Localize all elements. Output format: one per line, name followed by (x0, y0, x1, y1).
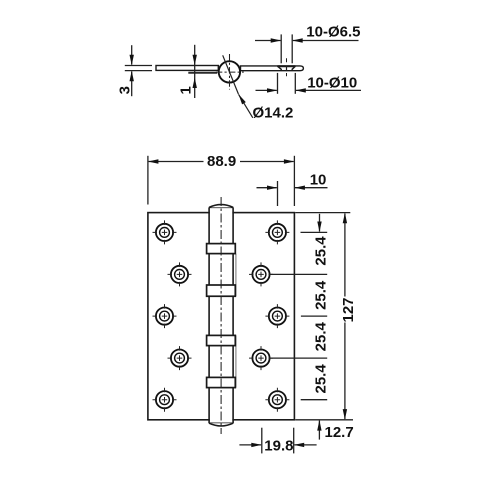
dimension 3 (131, 45, 133, 64)
dimension 88.9 (149, 161, 204, 163)
right leaf edge view (241, 66, 304, 71)
left leaf edge view (156, 66, 218, 71)
bearing shadow line seg4 (235, 335, 237, 387)
bearing shadow line seg2 (235, 254, 237, 297)
circle vertical centerline (229, 54, 231, 90)
barrel centerline (220, 197, 222, 434)
hinge plate outline (148, 213, 295, 420)
leader arrowhead (239, 94, 246, 104)
countersunk hole section (278, 65, 296, 67)
knuckle pin circle (219, 61, 240, 82)
svg-text:25.4: 25.4 (313, 321, 330, 351)
svg-text:1: 1 (178, 86, 195, 94)
svg-text:127: 127 (340, 297, 357, 322)
svg-text:10-Ø6.5: 10-Ø6.5 (306, 24, 360, 41)
bottom edge extension (295, 419, 353, 421)
dimension 1 (194, 45, 196, 98)
dimension 10 (257, 187, 277, 189)
dimension 19.8 (239, 444, 261, 446)
lower leaf line 1mm offset (188, 72, 217, 74)
screw hole L2 (168, 262, 192, 286)
leaf thickness extension lines (125, 65, 152, 67)
bearing washer D (207, 377, 236, 387)
bearing washer A (207, 244, 236, 254)
svg-text:12.7: 12.7 (325, 424, 354, 441)
svg-text:3: 3 (116, 86, 133, 94)
dimension 10-D10 (256, 89, 277, 91)
screw hole R4 (249, 346, 273, 370)
dimension 10-D6.5 (255, 40, 281, 42)
88.9 extension lines (147, 156, 149, 205)
knuckle barrel (210, 204, 233, 427)
19.8 extension lines (261, 428, 263, 454)
dimension 127 (344, 214, 346, 297)
svg-text:10-Ø10: 10-Ø10 (307, 74, 357, 91)
screw hole L4 (168, 346, 192, 370)
D6.5 extension lines (280, 34, 282, 63)
screw hole L3 (153, 304, 177, 328)
svg-text:25.4: 25.4 (313, 280, 330, 310)
leader line D14.2 (239, 94, 253, 118)
barrel top cap (209, 206, 233, 208)
screw hole R3 (265, 304, 289, 328)
screw hole R2 (249, 262, 273, 286)
10 extension line (277, 181, 279, 206)
barrel bottom cap (209, 422, 233, 424)
svg-text:19.8: 19.8 (264, 437, 293, 454)
screw hole R5 (265, 388, 289, 412)
chain top arrow (319, 214, 321, 232)
D10 extension lines (277, 73, 279, 94)
bearing washer C (207, 335, 236, 345)
svg-text:88.9: 88.9 (207, 153, 236, 170)
screw hole R1 (265, 220, 289, 244)
countersink centerline (286, 58, 288, 62)
row extension lines (301, 231, 328, 233)
screw hole L5 (153, 388, 177, 412)
svg-text:25.4: 25.4 (313, 236, 330, 266)
circle horizontal centerline (216, 71, 244, 73)
bearing washer B (207, 285, 236, 296)
svg-text:10: 10 (310, 171, 327, 188)
dimension 12.7 (318, 421, 320, 440)
pin radial centerline (223, 55, 239, 94)
screw hole L1 (153, 220, 177, 244)
top edge extension (295, 212, 350, 214)
svg-text:25.4: 25.4 (313, 364, 330, 394)
svg-text:Ø14.2: Ø14.2 (253, 105, 294, 122)
